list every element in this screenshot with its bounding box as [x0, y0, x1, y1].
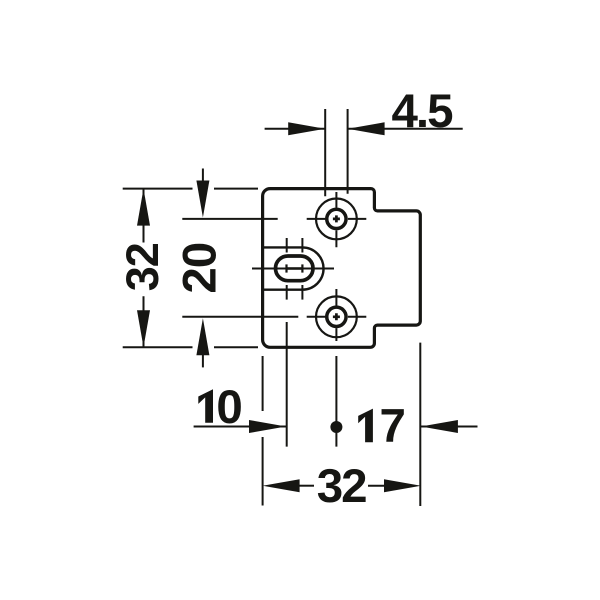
dim 32 left : down-pointing arrowhead: [137, 310, 150, 347]
dim 4.5 : right-pointing arrowhead: [288, 122, 325, 135]
dim 32 bottom : dimension line left segment: [298, 485, 314, 487]
slot left arc centerline (upper segment): [286, 238, 288, 253]
dim 4.5 : left leader line: [265, 128, 326, 130]
dim 10 : leader line: [194, 426, 286, 428]
top hole horizontal centerline: [307, 218, 367, 220]
dim 20 : top extension line: [182, 218, 277, 220]
top hole inner circle: [327, 209, 346, 228]
dim 32 left : up-pointing arrowhead: [137, 189, 150, 226]
dim 10 : right-pointing arrowhead: [249, 420, 286, 433]
slot centerline end ticks: [285, 264, 287, 272]
dim 20 : bottom extension line: [182, 316, 298, 318]
bottom hole inner circle: [327, 307, 346, 326]
top hole outer circle: [316, 199, 357, 240]
plate left edge extension line (upper): [262, 356, 264, 411]
label 10 : digit 1 (custom glyph): [198, 389, 213, 423]
plate outline (mounting plate body with right tab): [263, 189, 421, 348]
svg-text:4.5: 4.5: [391, 85, 453, 138]
svg-text:20: 20: [174, 243, 227, 294]
dim 4.5 : left extension line: [324, 109, 326, 196]
dim 4.5 : right extension line: [347, 109, 349, 194]
dim 17 : leader line: [420, 426, 477, 428]
slot horizontal centerline: [252, 268, 334, 270]
plate left edge extension line (lower): [262, 437, 264, 506]
dim 4.5 : left-pointing arrowhead: [348, 122, 385, 135]
dim 20 : down-pointing arrowhead (top, outside): [196, 181, 209, 218]
label 17 : digit 1 (custom glyph): [358, 409, 373, 443]
dim 32 bottom : dimension line right segment: [368, 485, 385, 487]
dim 32 left : bottom extension line: [123, 346, 258, 348]
slot left arc centerline (lower segment): [286, 285, 288, 300]
boss (D-shaped raised pad around slot): [261, 247, 324, 289]
dim 32 left : top extension line: [123, 188, 258, 190]
bottom hole vertical centerline extension below plate: [335, 356, 337, 447]
dim 17 : origin dot: [330, 421, 342, 433]
dim 20 : up-pointing arrowhead (bottom, outside): [196, 318, 209, 355]
slot (oblong hole): [276, 256, 314, 281]
bottom hole horizontal centerline: [307, 316, 367, 318]
top hole vertical centerline: [335, 192, 337, 247]
slot left arc centerline extension below plate: [286, 322, 288, 447]
svg-text:7: 7: [380, 400, 405, 453]
dim 17 : left-pointing arrowhead: [421, 420, 458, 433]
bottom hole vertical centerline: [335, 289, 337, 341]
top hole center cross: [333, 215, 340, 222]
bottom hole outer circle: [316, 296, 357, 337]
dim 4.5 : right leader line: [348, 128, 463, 130]
bottom hole center cross: [333, 313, 340, 320]
dim 32 bottom : left-pointing arrowhead: [263, 479, 300, 492]
slot adjustment bar: [287, 267, 303, 270]
svg-text:32: 32: [117, 243, 168, 291]
dim 20 : top arrow stub: [202, 169, 204, 183]
dim 32 left : dimension line: [143, 189, 145, 348]
dim 20 : bottom arrow stub: [202, 353, 204, 367]
slot right arc centerline (lower segment): [301, 285, 303, 300]
svg-text:32: 32: [317, 460, 366, 513]
slot right arc centerline (upper segment): [301, 238, 303, 253]
svg-text:0: 0: [216, 381, 241, 434]
plate right edge extension line: [419, 343, 421, 506]
dim 32 bottom : right-pointing arrowhead: [384, 479, 421, 492]
